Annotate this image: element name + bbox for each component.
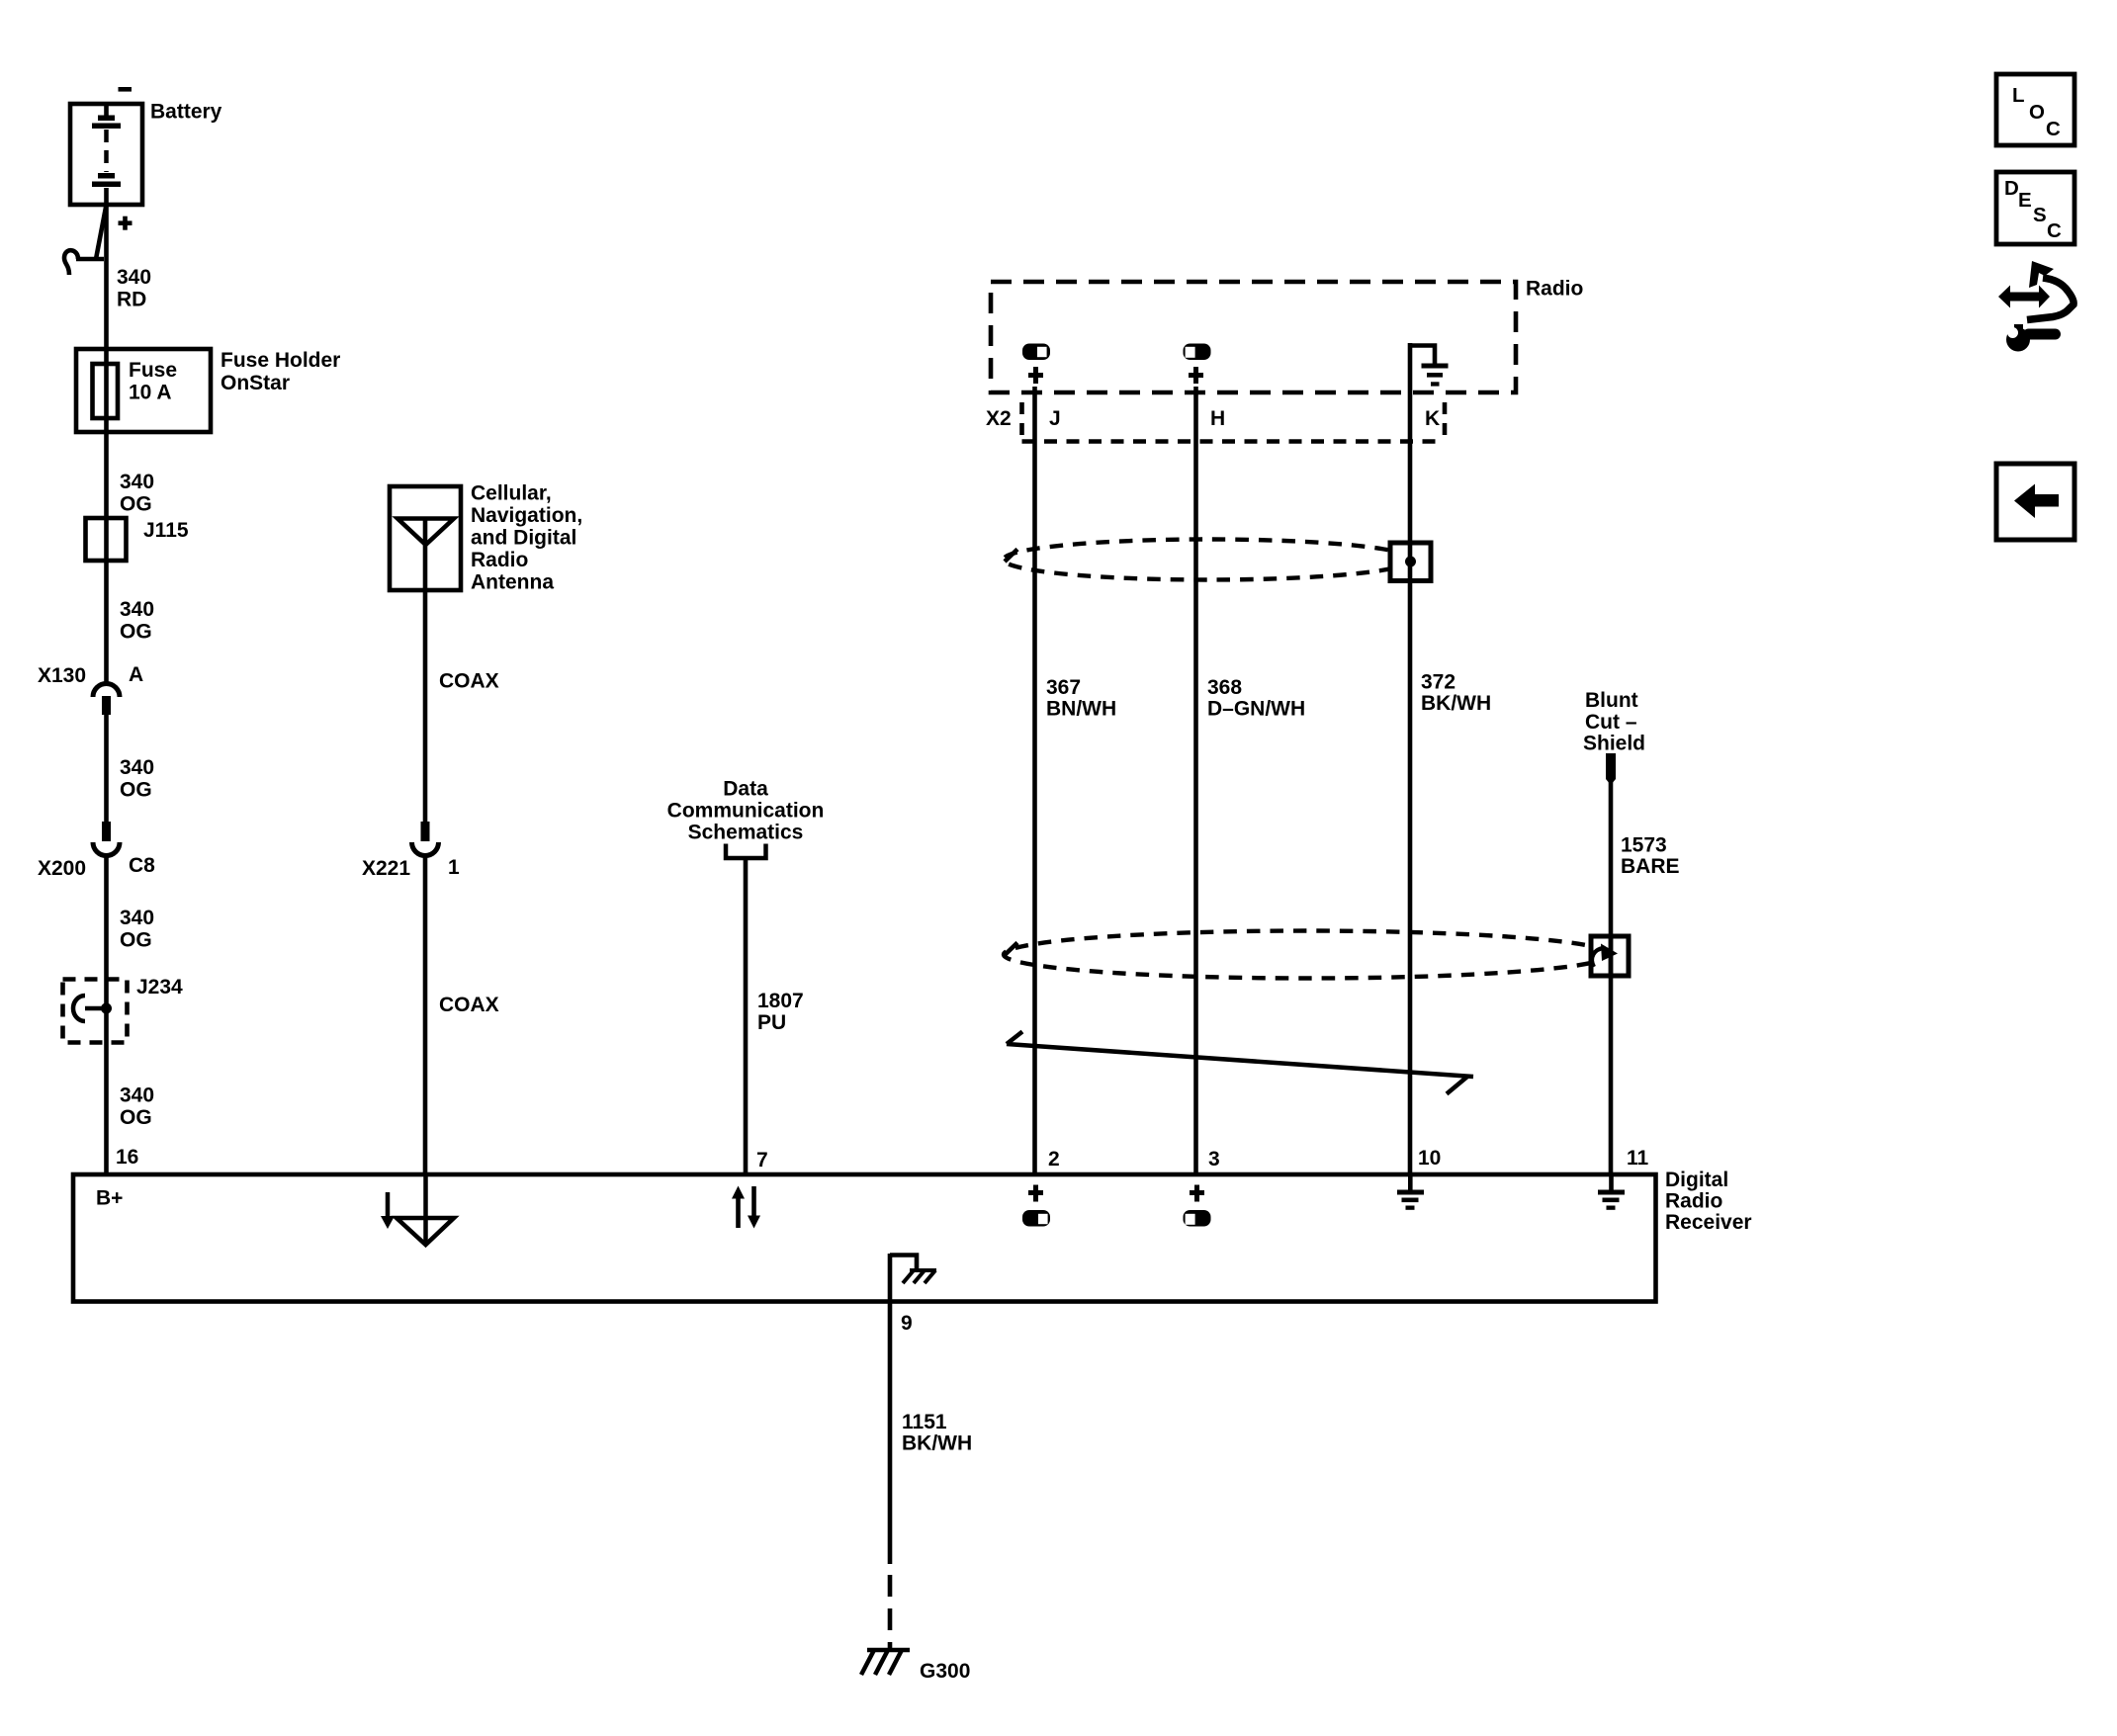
svg-text:340: 340 <box>120 1085 154 1107</box>
svg-text:3: 3 <box>1208 1148 1220 1171</box>
svg-text:Receiver: Receiver <box>1665 1211 1752 1234</box>
svg-text:C8: C8 <box>129 854 155 877</box>
svg-text:J: J <box>1049 407 1061 430</box>
svg-text:Cellular,: Cellular, <box>471 482 552 505</box>
svg-text:Radio: Radio <box>1526 278 1583 301</box>
svg-text:B+: B+ <box>96 1187 123 1210</box>
svg-text:Navigation,: Navigation, <box>471 504 582 527</box>
svg-text:COAX: COAX <box>439 994 499 1016</box>
svg-text:Radio: Radio <box>1665 1190 1722 1213</box>
svg-text:Data: Data <box>723 778 768 801</box>
svg-text:OG: OG <box>120 1106 152 1129</box>
svg-text:O: O <box>2029 101 2045 124</box>
svg-text:16: 16 <box>116 1146 138 1169</box>
svg-text:S: S <box>2033 204 2047 226</box>
svg-text:340: 340 <box>120 598 154 621</box>
svg-text:C: C <box>2047 219 2062 242</box>
svg-text:1151: 1151 <box>902 1411 947 1433</box>
svg-text:BK/WH: BK/WH <box>902 1432 972 1455</box>
svg-text:BARE: BARE <box>1621 855 1680 878</box>
svg-text:Antenna: Antenna <box>471 571 554 594</box>
svg-text:L: L <box>2012 84 2025 107</box>
svg-text:D–GN/WH: D–GN/WH <box>1207 698 1305 721</box>
svg-text:Shield: Shield <box>1583 733 1645 755</box>
svg-text:Cut –: Cut – <box>1585 711 1637 734</box>
svg-text:OG: OG <box>120 493 152 516</box>
svg-text:J234: J234 <box>136 976 183 998</box>
svg-text:340: 340 <box>120 471 154 493</box>
svg-text:H: H <box>1210 407 1225 430</box>
svg-text:11: 11 <box>1627 1147 1649 1170</box>
svg-text:10: 10 <box>1418 1147 1441 1170</box>
svg-text:Radio: Radio <box>471 549 528 571</box>
svg-text:340: 340 <box>120 756 154 779</box>
svg-text:K: K <box>1425 407 1440 430</box>
svg-text:RD: RD <box>117 289 146 311</box>
svg-text:7: 7 <box>756 1149 768 1172</box>
svg-text:372: 372 <box>1421 671 1455 694</box>
svg-text:PU: PU <box>757 1011 786 1034</box>
svg-text:340: 340 <box>117 266 151 289</box>
svg-text:X2: X2 <box>986 407 1012 430</box>
svg-text:X200: X200 <box>38 857 86 880</box>
svg-text:BN/WH: BN/WH <box>1046 698 1116 721</box>
svg-text:G300: G300 <box>920 1660 970 1683</box>
svg-text:Digital: Digital <box>1665 1169 1728 1191</box>
svg-text:9: 9 <box>901 1312 913 1335</box>
svg-text:OG: OG <box>120 621 152 644</box>
svg-text:D: D <box>2004 177 2019 200</box>
svg-text:OG: OG <box>120 929 152 952</box>
svg-text:2: 2 <box>1048 1148 1060 1171</box>
svg-text:and Digital: and Digital <box>471 527 576 550</box>
svg-text:1807: 1807 <box>757 990 804 1012</box>
svg-text:1573: 1573 <box>1621 834 1667 857</box>
svg-text:OnStar: OnStar <box>221 372 290 394</box>
svg-text:367: 367 <box>1046 676 1081 699</box>
svg-text:1: 1 <box>448 856 460 879</box>
svg-text:BK/WH: BK/WH <box>1421 692 1491 715</box>
svg-text:J115: J115 <box>143 519 189 542</box>
svg-text:10 A: 10 A <box>129 382 172 404</box>
svg-text:Fuse Holder: Fuse Holder <box>221 349 340 372</box>
svg-text:Communication: Communication <box>667 800 825 823</box>
svg-text:368: 368 <box>1207 676 1242 699</box>
svg-text:OG: OG <box>120 779 152 802</box>
svg-text:C: C <box>2046 118 2061 140</box>
svg-text:Fuse: Fuse <box>129 359 177 382</box>
svg-text:340: 340 <box>120 907 154 929</box>
svg-text:E: E <box>2018 189 2032 212</box>
svg-text:Battery: Battery <box>150 101 222 124</box>
svg-text:A: A <box>129 663 143 686</box>
svg-text:Blunt: Blunt <box>1585 689 1638 712</box>
svg-text:X221: X221 <box>362 857 410 880</box>
svg-text:Schematics: Schematics <box>688 822 804 844</box>
svg-text:COAX: COAX <box>439 670 499 693</box>
svg-text:X130: X130 <box>38 664 86 687</box>
